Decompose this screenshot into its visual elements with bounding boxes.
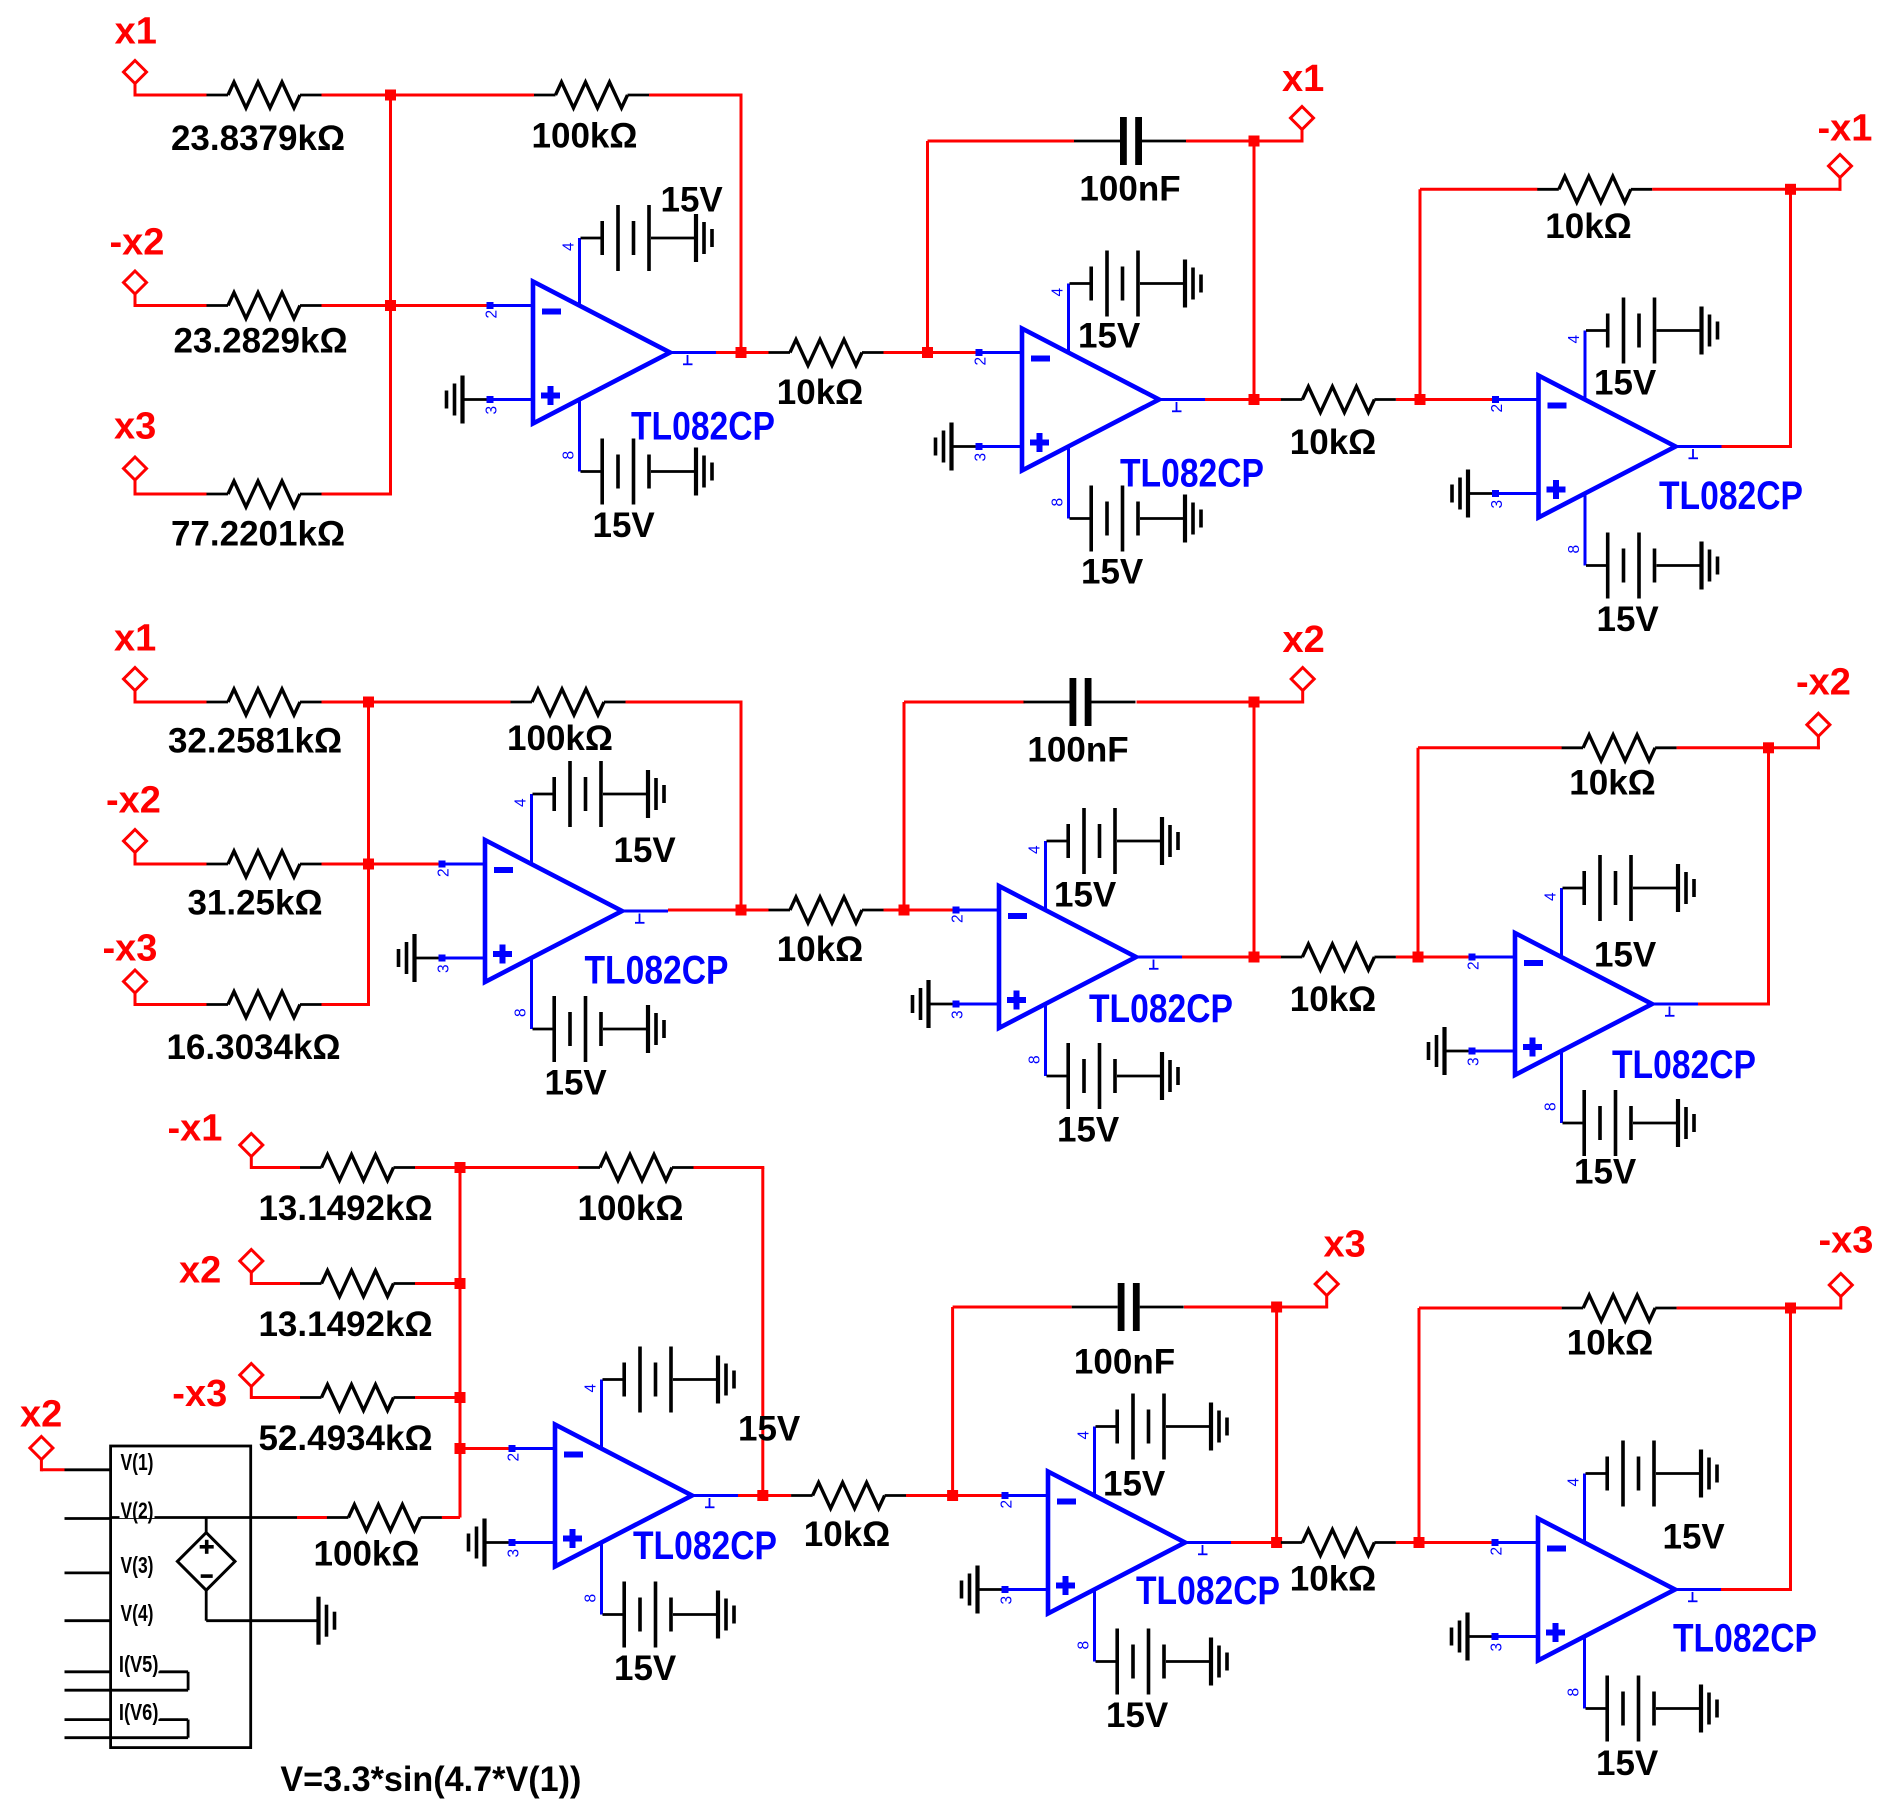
svg-text:8: 8	[1027, 1055, 1044, 1064]
svg-text:TL082CP: TL082CP	[1659, 474, 1803, 518]
svg-text:10kΩ: 10kΩ	[1569, 764, 1655, 803]
svg-text:15V: 15V	[1597, 600, 1660, 639]
svg-text:15V: 15V	[1054, 875, 1117, 914]
svg-text:52.4934kΩ: 52.4934kΩ	[258, 1419, 432, 1458]
svg-text:x2: x2	[20, 1394, 62, 1436]
svg-text:2: 2	[999, 1500, 1016, 1509]
svg-text:15V: 15V	[1594, 363, 1657, 402]
svg-text:77.2201kΩ: 77.2201kΩ	[171, 514, 345, 553]
svg-text:8: 8	[513, 1008, 530, 1017]
svg-text:100nF: 100nF	[1027, 730, 1128, 769]
svg-text:-x3: -x3	[1819, 1220, 1874, 1262]
svg-text:-x2: -x2	[106, 780, 161, 822]
svg-text:x3: x3	[114, 406, 156, 448]
svg-text:15V: 15V	[1596, 1744, 1659, 1783]
svg-text:10kΩ: 10kΩ	[777, 930, 863, 969]
svg-text:-x2: -x2	[110, 222, 165, 264]
svg-text:3: 3	[1489, 500, 1506, 509]
svg-text:-x2: -x2	[1796, 662, 1851, 704]
svg-text:8: 8	[583, 1594, 600, 1603]
svg-text:TL082CP: TL082CP	[1089, 987, 1233, 1031]
svg-text:I(V5): I(V5)	[119, 1651, 158, 1677]
svg-text:-x3: -x3	[172, 1373, 227, 1415]
svg-text:3: 3	[999, 1596, 1016, 1605]
svg-text:2: 2	[1489, 1547, 1506, 1556]
svg-text:8: 8	[561, 451, 578, 460]
svg-text:100nF: 100nF	[1074, 1342, 1175, 1381]
svg-text:15V: 15V	[593, 506, 656, 545]
svg-text:10kΩ: 10kΩ	[777, 373, 863, 412]
svg-text:2: 2	[506, 1453, 523, 1462]
svg-text:100kΩ: 100kΩ	[578, 1189, 684, 1228]
svg-text:TL082CP: TL082CP	[631, 405, 775, 449]
svg-text:4: 4	[1543, 892, 1560, 901]
svg-text:V(3): V(3)	[121, 1552, 154, 1578]
svg-text:10kΩ: 10kΩ	[1290, 980, 1376, 1019]
svg-text:4: 4	[1566, 1478, 1583, 1487]
svg-text:4: 4	[1050, 288, 1067, 297]
svg-text:15V: 15V	[1057, 1110, 1120, 1149]
svg-text:V(1): V(1)	[121, 1449, 154, 1475]
svg-text:3: 3	[1489, 1643, 1506, 1652]
svg-text:2: 2	[1489, 404, 1506, 413]
svg-text:x1: x1	[114, 618, 156, 660]
svg-text:2: 2	[950, 914, 967, 923]
svg-text:3: 3	[436, 964, 453, 973]
svg-text:15V: 15V	[661, 180, 724, 219]
svg-text:15V: 15V	[614, 831, 677, 870]
svg-text:100nF: 100nF	[1079, 169, 1180, 208]
svg-text:2: 2	[973, 357, 990, 366]
svg-text:13.1492kΩ: 13.1492kΩ	[258, 1189, 432, 1228]
svg-text:16.3034kΩ: 16.3034kΩ	[166, 1028, 340, 1067]
svg-text:4: 4	[561, 242, 578, 251]
svg-text:31.25kΩ: 31.25kΩ	[187, 883, 322, 922]
svg-text:15V: 15V	[1078, 316, 1141, 355]
svg-text:23.8379kΩ: 23.8379kΩ	[171, 119, 345, 158]
svg-text:x1: x1	[1282, 58, 1324, 100]
svg-text:23.2829kΩ: 23.2829kΩ	[173, 321, 347, 360]
svg-text:10kΩ: 10kΩ	[1290, 1559, 1376, 1598]
svg-text:x3: x3	[1324, 1224, 1366, 1266]
svg-text:3: 3	[506, 1549, 523, 1558]
svg-text:10kΩ: 10kΩ	[1567, 1323, 1653, 1362]
svg-text:8: 8	[1543, 1102, 1560, 1111]
svg-text:x2: x2	[1283, 619, 1325, 661]
svg-text:V(2): V(2)	[121, 1498, 154, 1524]
svg-text:15V: 15V	[1663, 1517, 1726, 1556]
svg-text:10kΩ: 10kΩ	[1545, 207, 1631, 246]
svg-text:3: 3	[973, 453, 990, 462]
svg-text:100kΩ: 100kΩ	[532, 116, 638, 155]
svg-text:100kΩ: 100kΩ	[507, 719, 613, 758]
svg-text:15V: 15V	[1594, 935, 1657, 974]
svg-text:-x1: -x1	[1818, 108, 1873, 150]
svg-text:3: 3	[950, 1010, 967, 1019]
svg-text:8: 8	[1076, 1641, 1093, 1650]
svg-text:V=3.3*sin(4.7*V(1)): V=3.3*sin(4.7*V(1))	[280, 1760, 581, 1799]
svg-text:8: 8	[1566, 1688, 1583, 1697]
svg-text:15V: 15V	[1106, 1696, 1169, 1735]
svg-text:2: 2	[436, 868, 453, 877]
svg-text:4: 4	[1076, 1431, 1093, 1440]
svg-text:I(V6): I(V6)	[119, 1699, 158, 1725]
svg-text:TL082CP: TL082CP	[633, 1524, 777, 1568]
svg-text:4: 4	[1027, 845, 1044, 854]
svg-text:2: 2	[1466, 961, 1483, 970]
svg-text:13.1492kΩ: 13.1492kΩ	[258, 1305, 432, 1344]
svg-text:32.2581kΩ: 32.2581kΩ	[168, 721, 342, 760]
svg-text:-x3: -x3	[103, 928, 158, 970]
svg-text:x2: x2	[179, 1250, 221, 1292]
svg-text:TL082CP: TL082CP	[1673, 1617, 1817, 1661]
svg-text:8: 8	[1566, 545, 1583, 554]
svg-text:TL082CP: TL082CP	[585, 949, 729, 993]
svg-text:V(4): V(4)	[121, 1600, 154, 1626]
svg-text:15V: 15V	[1081, 552, 1144, 591]
svg-text:15V: 15V	[545, 1063, 608, 1102]
svg-text:3: 3	[484, 406, 501, 415]
svg-text:15V: 15V	[614, 1649, 677, 1688]
svg-text:8: 8	[1050, 498, 1067, 507]
svg-text:10kΩ: 10kΩ	[1290, 423, 1376, 462]
svg-text:4: 4	[1566, 335, 1583, 344]
svg-text:15V: 15V	[1103, 1464, 1166, 1503]
svg-text:10kΩ: 10kΩ	[804, 1515, 890, 1554]
svg-text:TL082CP: TL082CP	[1120, 452, 1264, 496]
svg-text:2: 2	[484, 310, 501, 319]
svg-text:4: 4	[583, 1384, 600, 1393]
svg-text:TL082CP: TL082CP	[1136, 1569, 1280, 1613]
svg-text:x1: x1	[115, 11, 157, 53]
svg-text:4: 4	[513, 798, 530, 807]
svg-text:3: 3	[1466, 1057, 1483, 1066]
svg-text:100kΩ: 100kΩ	[314, 1534, 420, 1573]
svg-text:15V: 15V	[1574, 1152, 1637, 1191]
svg-text:TL082CP: TL082CP	[1612, 1043, 1756, 1087]
svg-text:-x1: -x1	[168, 1108, 223, 1150]
svg-text:15V: 15V	[738, 1409, 801, 1448]
